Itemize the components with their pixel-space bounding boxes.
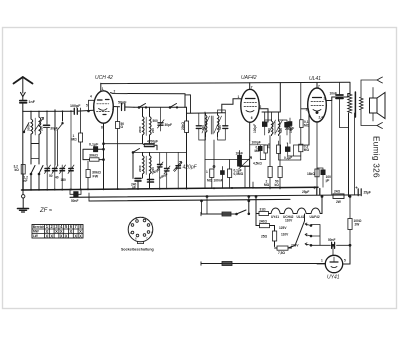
svg-text:X: X (50, 234, 53, 239)
capacitor 100pF det (221, 171, 225, 175)
svg-text:500: 500 (201, 125, 205, 130)
svg-text:MΩ: MΩ (207, 179, 213, 183)
coil osc L5 (143, 153, 145, 179)
svg-text:200: 200 (151, 167, 155, 172)
svg-text:50nF: 50nF (71, 199, 78, 203)
svg-text:MΩ: MΩ (255, 149, 261, 153)
capacitor blob (148, 180, 154, 183)
coil osc L3 (143, 107, 145, 143)
capacitor 50nF bus (70, 189, 81, 194)
svg-text:100nF: 100nF (214, 179, 223, 183)
svg-text:2000: 2000 (26, 124, 30, 131)
capacitor 25uF no1 (317, 189, 320, 196)
svg-text:1: 1 (206, 170, 208, 174)
svg-text:X: X (70, 229, 73, 234)
svg-text:Bereich: Bereich (33, 225, 45, 229)
resistor 25kOhm (277, 145, 281, 154)
svg-text:µF: µF (326, 178, 330, 182)
svg-text:UAF42: UAF42 (241, 75, 257, 81)
IF transformer T1 coil a (206, 114, 208, 137)
wire UAF42 cathode to bus (249, 141, 251, 188)
wire T1 left leg long vertical (204, 112, 206, 189)
capacitor T1 left (196, 126, 201, 129)
svg-text:0,1µF: 0,1µF (89, 143, 99, 147)
ground bus (22, 187, 319, 190)
trimmer arrow 420pF (174, 162, 182, 171)
svg-text:110V: 110V (285, 219, 293, 223)
trimmer cap 50 (45, 169, 50, 171)
tube UCH42 envelope (94, 91, 114, 123)
verticals rails to mains (202, 197, 208, 215)
svg-text:30pF: 30pF (165, 123, 172, 127)
resistor 31 Ohm (259, 212, 269, 216)
svg-text:420pF: 420pF (183, 165, 198, 171)
tube UCH42 internals (98, 99, 110, 102)
IF transformer T2 coil b (279, 120, 280, 136)
coil osc L4 (150, 107, 152, 143)
selector taps to right (311, 225, 320, 246)
junction dots on bus (0, 0, 1, 1)
svg-text:10nF: 10nF (330, 91, 337, 95)
wire anode down long (331, 101, 333, 195)
wire UL41 grid (307, 109, 310, 145)
svg-text:24Ω: 24Ω (334, 190, 341, 194)
wire pin3 right (113, 106, 119, 108)
switch S3 (39, 166, 43, 174)
switch osc1 (139, 104, 146, 108)
antenna (14, 77, 33, 84)
svg-text:Eumig 326: Eumig 326 (372, 136, 381, 178)
svg-text:25µF: 25µF (302, 190, 309, 194)
svg-text:50pF: 50pF (118, 101, 127, 105)
resistor 0,3MOhm (299, 144, 303, 152)
wire detector horizontal (205, 159, 241, 161)
mains line 1 (201, 213, 236, 215)
power rail A (70, 195, 360, 197)
svg-text:18kΩ: 18kΩ (307, 172, 315, 176)
svg-text:25µF: 25µF (364, 190, 371, 194)
capacitor 0,1uF (94, 147, 98, 152)
svg-text:kΩ: kΩ (15, 168, 20, 172)
switch (57, 124, 63, 166)
variable cap 420pF (176, 166, 181, 168)
resistor 50kOhm (278, 167, 282, 178)
trimmer 30pF (158, 123, 163, 125)
switch antenna (24, 123, 29, 132)
wire primary bottom down (348, 113, 350, 197)
capacitor 50nF psu (332, 242, 335, 248)
svg-text:2000: 2000 (138, 165, 142, 172)
heater UY41 (271, 208, 280, 214)
wire g1 UL41 (288, 145, 309, 156)
trimmer cap 180 (60, 169, 65, 171)
capacitor 100pF if2 left (263, 122, 267, 126)
capacitor 50pF (122, 104, 125, 111)
trimmer 500pF (165, 169, 170, 171)
coil L1 antenna (31, 112, 39, 144)
wire pin bottom (103, 123, 105, 189)
svg-text:50: 50 (49, 174, 53, 178)
wire T1 bottom leg (213, 140, 215, 169)
svg-text:UL41: UL41 (309, 76, 321, 82)
wire link coils (31, 158, 39, 160)
trimmer arrow (35, 118, 44, 132)
svg-text:30pF: 30pF (50, 127, 57, 131)
potentiometer 4,5kOhm (241, 160, 250, 167)
speaker connector top (377, 77, 383, 83)
resistor 24 Ohm 2W rail (333, 194, 344, 199)
wire from speaker frame (361, 87, 373, 89)
resistor 1MOhm det (210, 169, 214, 178)
wire pot to bus (245, 166, 253, 188)
heater UL41 (297, 208, 306, 214)
svg-text:50nF: 50nF (328, 238, 335, 242)
svg-text:X: X (55, 229, 58, 234)
transformer primary winding (348, 94, 352, 114)
svg-text:7: 7 (318, 85, 320, 89)
wire: antenna down to ground bus (22, 111, 24, 190)
speaker (370, 98, 378, 113)
svg-text:31Ω: 31Ω (260, 208, 267, 212)
svg-text:nF: nF (24, 179, 28, 183)
capacitor 1nF (20, 101, 27, 103)
mains switch (237, 210, 247, 214)
resistor det2 (228, 169, 232, 178)
svg-text:1nF: 1nF (29, 100, 36, 104)
socket pins (131, 219, 150, 237)
wire secondary to speaker (361, 80, 377, 126)
coil osc L6 (150, 153, 152, 182)
wire UY41 heater top (332, 245, 334, 255)
wire UY41 left (317, 263, 325, 266)
capacitor 10nF det (238, 156, 242, 167)
resistor 50 Ohm (116, 122, 120, 129)
svg-text:500: 500 (153, 119, 159, 123)
svg-text:10nF: 10nF (236, 152, 243, 156)
svg-text:7,5Ω: 7,5Ω (278, 251, 285, 255)
svg-text:100pF: 100pF (253, 124, 257, 133)
capacitor 10nF tone (336, 95, 343, 98)
mains line 2 (201, 263, 325, 265)
wire AVC vertical (262, 83, 280, 112)
tube UY41 (325, 255, 342, 272)
tube UAF42 envelope (241, 89, 259, 122)
transformer core (354, 92, 356, 117)
resistor 3,2kOhm (21, 165, 25, 175)
svg-text:UL41: UL41 (297, 215, 305, 219)
svg-text:X: X (46, 234, 49, 239)
heater UCH42 (284, 208, 293, 214)
svg-text:500: 500 (279, 128, 283, 133)
svg-text:0,5MΩ: 0,5MΩ (234, 172, 244, 176)
junction dots signal line (30, 110, 72, 112)
wire pin1 to top bus (100, 83, 102, 91)
wire signal line mid (134, 106, 187, 108)
svg-text:2W: 2W (355, 223, 360, 227)
svg-text:100pF: 100pF (70, 104, 81, 108)
wire UL41 anode (326, 97, 348, 101)
svg-text:2W: 2W (336, 200, 341, 204)
svg-text:25Ω: 25Ω (261, 235, 268, 239)
svg-text:240Ω: 240Ω (259, 220, 267, 224)
capacitor 100pF (74, 108, 77, 114)
svg-text:X: X (65, 234, 68, 239)
svg-text:Sockelbeschaltung: Sockelbeschaltung (121, 248, 154, 252)
capacitor 240pF (135, 178, 141, 181)
svg-text:5: 5 (344, 259, 346, 263)
capacitor 100uF (321, 170, 325, 175)
capacitor 100pF if2 right (285, 123, 289, 127)
capacitor 4700pF (145, 144, 155, 147)
voltage selector arm (288, 214, 305, 248)
svg-text:4,5kΩ: 4,5kΩ (253, 161, 262, 165)
selector contact 125V (305, 234, 311, 237)
capacitor 0,1uF koppel (286, 147, 290, 151)
svg-text:1: 1 (238, 95, 240, 99)
IF transformer T2 coil a (272, 120, 273, 136)
switch S2 (31, 166, 35, 174)
speaker connector bottom (377, 123, 383, 129)
heater UAF42 (311, 208, 320, 214)
svg-text:1: 1 (102, 87, 104, 91)
wire main vertical (186, 107, 188, 121)
svg-text:0,1µF: 0,1µF (284, 156, 292, 160)
wire anode branch (185, 95, 191, 113)
svg-text:4: 4 (90, 95, 92, 99)
svg-text:125V: 125V (279, 226, 287, 230)
svg-text:2: 2 (324, 97, 326, 101)
svg-text:ZF ≈: ZF ≈ (39, 208, 53, 214)
tube UAF42 internals (246, 98, 256, 100)
resistor 0,1MOhm g2 (300, 120, 303, 128)
svg-text:7: 7 (251, 86, 253, 90)
svg-text:100pF: 100pF (252, 141, 261, 145)
svg-text:X: X (60, 234, 63, 239)
svg-text:MΩ: MΩ (72, 138, 78, 142)
tube UL41 internals (313, 97, 322, 99)
svg-text:2: 2 (114, 90, 116, 94)
switch osc2 (170, 104, 177, 108)
wire UL41 pin7 to bus (316, 83, 318, 88)
capacitor 250pF (288, 122, 292, 126)
wire UL41 grid tie (301, 108, 309, 110)
svg-text:MΩ: MΩ (304, 148, 310, 152)
tube socket circle (128, 217, 153, 242)
resistor 2MOhm (268, 167, 272, 178)
wire: left signal bus (23, 110, 94, 111)
wire UAF42 pin7 to bus (249, 83, 251, 90)
resistor 0,1MOhm avc (264, 145, 267, 153)
svg-text:UY41: UY41 (271, 215, 279, 219)
resistor 18kOhm (315, 169, 319, 177)
svg-text:220V: 220V (291, 244, 299, 248)
wire verticals left block (31, 110, 63, 165)
capacitor T1 right (223, 126, 228, 129)
capacitor 25uF no2 (358, 189, 361, 196)
resistor 7,5 Ohm (277, 246, 288, 250)
resistor 1MOhm (79, 133, 83, 142)
T1 trimmer arrows (202, 116, 222, 133)
wire grid in (93, 107, 95, 109)
svg-text:1: 1 (306, 108, 308, 112)
trimmer 140pF (158, 165, 163, 167)
wire pin2 (111, 93, 186, 108)
wire UY41 right (343, 245, 350, 264)
coil L2 (39, 112, 41, 136)
transformer secondary winding (360, 98, 364, 110)
svg-text:6: 6 (251, 116, 253, 120)
wire top bus (101, 82, 350, 83)
svg-text:20kΩ: 20kΩ (181, 122, 185, 130)
svg-text:UAF42: UAF42 (310, 215, 320, 219)
resistor 100 Ohm 2W (348, 219, 352, 230)
svg-text:MW: MW (33, 230, 39, 234)
selector contact 220V (305, 243, 311, 246)
svg-text:LW: LW (33, 234, 38, 238)
tube UL41 envelope (308, 88, 327, 122)
wire UL41 cathode down (316, 122, 318, 189)
wire T1 top (187, 99, 242, 113)
T1 core (211, 116, 213, 134)
svg-text:40: 40 (55, 176, 59, 180)
switch osc row2 (133, 149, 140, 153)
svg-text:Ω: Ω (121, 125, 124, 129)
svg-text:8: 8 (101, 126, 103, 130)
resistor vertical tap (273, 231, 277, 241)
svg-text:2000: 2000 (138, 126, 142, 133)
svg-text:UY41: UY41 (327, 275, 340, 281)
wire: grid loop (89, 100, 95, 111)
svg-text:500: 500 (218, 125, 222, 130)
svg-text:MΩ: MΩ (264, 183, 270, 187)
wire UAF42 pin1 (240, 98, 242, 100)
svg-text:4700pF: 4700pF (147, 140, 158, 144)
svg-text:kΩ: kΩ (275, 183, 280, 187)
wire UAF42 pin2 (259, 109, 268, 122)
fuse 2 (222, 262, 232, 266)
svg-text:3: 3 (112, 107, 114, 111)
svg-text:180: 180 (61, 178, 67, 182)
svg-text:1: 1 (321, 259, 323, 263)
power rail B (89, 199, 290, 201)
wire UAF42 bottom (249, 122, 251, 140)
resistor 240 Ohm (260, 224, 270, 228)
capacitor 30pF (44, 111, 50, 165)
svg-text:UCH 42: UCH 42 (95, 75, 113, 81)
selector contact 110V (305, 223, 311, 226)
ground symbol (22, 195, 25, 198)
resistor 30kOhm FW (86, 170, 90, 178)
svg-text:200: 200 (40, 126, 44, 131)
svg-text:500: 500 (267, 128, 271, 133)
IF transformer T1 coil b (218, 114, 220, 137)
svg-text:200: 200 (151, 128, 155, 133)
wire 50nF line (311, 244, 350, 246)
svg-text:X: X (79, 234, 82, 239)
svg-text:5: 5 (86, 104, 88, 108)
trimmer cap 4 (69, 169, 73, 171)
svg-text:X: X (74, 234, 77, 239)
capacitor 100pF avc (259, 147, 263, 151)
wire to oscillator coil (104, 143, 143, 145)
heater chain left vertical (255, 197, 257, 214)
svg-text:25k: 25k (267, 143, 271, 149)
svg-text:250pF: 250pF (285, 127, 294, 131)
svg-text:FW: FW (93, 175, 99, 179)
svg-text:2,4: 2,4 (319, 116, 324, 120)
svg-text:2: 2 (260, 105, 262, 109)
svg-text:110V: 110V (281, 233, 289, 237)
T2 trimmer arrows (269, 120, 283, 133)
trimmer cap 40 (53, 169, 58, 171)
fuse 1 (222, 212, 231, 216)
svg-text:30kΩ: 30kΩ (89, 154, 98, 158)
wave band table (32, 225, 83, 239)
wire row2 (133, 151, 187, 153)
resistor 20kOhm (185, 121, 189, 133)
junction dots (103, 143, 105, 145)
resistor 30kOhm (90, 158, 100, 161)
